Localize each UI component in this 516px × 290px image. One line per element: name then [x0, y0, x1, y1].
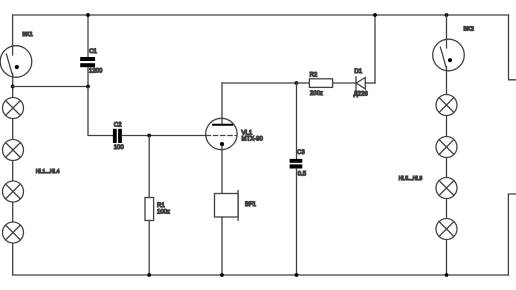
- svg-text:100: 100: [114, 145, 125, 151]
- wire diode to top bus: [374, 15, 376, 83]
- junction dot R1 top: [147, 134, 151, 138]
- thyratron VL1: [206, 83, 237, 194]
- junction dot BK1 bottom: [11, 85, 15, 89]
- junction dot C3 bottom: [295, 273, 299, 277]
- capacitor C3: [290, 83, 303, 275]
- diode D1: [356, 77, 375, 90]
- resistor R2: [297, 79, 357, 88]
- junction dot BK2 top: [445, 13, 449, 17]
- wire mains exit top right: [509, 15, 516, 80]
- lamp HL3: [3, 181, 24, 202]
- wire BK1 to lamp chain: [12, 74, 14, 276]
- svg-text:100к: 100к: [157, 209, 170, 215]
- capacitor C2: [113, 129, 122, 143]
- capacitor C1: [80, 15, 95, 87]
- svg-text:MTX-90: MTX-90: [242, 137, 264, 143]
- wire junction to C1 bottom: [13, 86, 88, 88]
- sounder BF1: [215, 191, 239, 275]
- junction dot BF1 bottom: [220, 273, 224, 277]
- svg-text:C3: C3: [297, 150, 305, 156]
- lamp HL7: [436, 178, 457, 199]
- wire anode to junction: [222, 82, 297, 84]
- svg-text:HL1...HL4: HL1...HL4: [36, 169, 60, 175]
- svg-text:D1: D1: [354, 69, 362, 75]
- svg-text:BK1: BK1: [22, 32, 32, 38]
- junction dot anode node: [295, 81, 299, 85]
- lamp HL5: [436, 95, 457, 116]
- wire mains exit bottom right: [508, 194, 516, 275]
- wire top bus to BK2: [446, 15, 448, 48]
- svg-text:1200: 1200: [89, 69, 103, 75]
- lamp HL4: [3, 222, 24, 243]
- svg-text:Д226: Д226: [354, 91, 369, 97]
- svg-text:C1: C1: [89, 49, 97, 55]
- wire bottom bus: [13, 274, 509, 276]
- junction dot diode top: [373, 13, 377, 17]
- lamp HL8: [436, 219, 457, 240]
- wire C1 junction down to C2: [88, 87, 113, 136]
- junction dot C1 top: [86, 13, 90, 17]
- junction dot right chain bottom: [445, 273, 449, 277]
- svg-text:C2: C2: [114, 122, 122, 128]
- lamp HL6: [436, 137, 457, 158]
- junction dot C1 bottom: [86, 85, 90, 89]
- resistor R1: [145, 136, 154, 276]
- wire top bus: [13, 14, 509, 16]
- wire left drop to BK1: [12, 15, 14, 55]
- sensor switch BK1: [0, 46, 32, 78]
- svg-text:R2: R2: [310, 72, 318, 78]
- svg-text:BK2: BK2: [464, 26, 474, 32]
- svg-text:HL5...HL8: HL5...HL8: [399, 176, 423, 182]
- wire BK2 to right lamp chain: [446, 67, 448, 275]
- junction dot R1 bottom: [147, 273, 151, 277]
- lamp HL1: [3, 98, 24, 119]
- sensor switch BK2: [433, 39, 465, 71]
- lamp HL2: [3, 140, 24, 161]
- svg-text:200к: 200к: [310, 91, 323, 97]
- wire C2 to grid of VL1: [122, 135, 206, 137]
- svg-text:0.5: 0.5: [298, 171, 307, 177]
- svg-text:R1: R1: [157, 203, 165, 209]
- svg-text:BF1: BF1: [245, 202, 257, 208]
